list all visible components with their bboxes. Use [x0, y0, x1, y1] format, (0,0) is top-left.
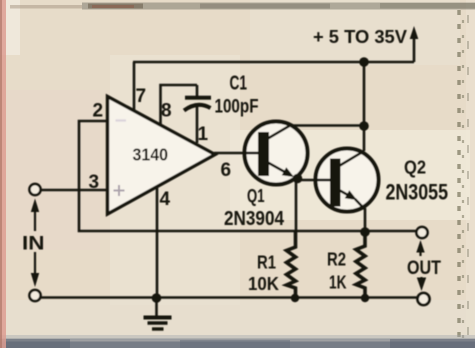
node: collector junction: [359, 121, 369, 131]
wire: bottom ground rail: [41, 296, 417, 299]
op-amp plus marking: [114, 185, 125, 196]
svg-text:IN: IN: [22, 234, 45, 255]
wire: pin 4 to ground rail: [156, 188, 159, 297]
wire: +V vertical rail: [363, 62, 366, 151]
wire: capacitor top lead: [196, 85, 199, 96]
OUT arrow up: [419, 251, 421, 256]
svg-text:+ 5 TO 35V: + 5 TO 35V: [313, 27, 407, 47]
transistor Q2 2N3055 body: [316, 149, 379, 212]
wire: Q1 collector to rail: [290, 124, 364, 127]
op-amp U1 3140: [108, 97, 216, 215]
wire: pin 8 to capacitor: [161, 85, 198, 128]
wire: Q1 emitter to Q2 base: [297, 179, 331, 182]
IN arrow up: [34, 212, 36, 231]
svg-text:1: 1: [198, 124, 209, 145]
Q2 emitter stroke with arrow: [339, 190, 351, 197]
svg-text:2N3904: 2N3904: [224, 208, 285, 230]
svg-text:Q2: Q2: [404, 158, 426, 178]
terminal OUT bottom: [418, 293, 430, 305]
svg-text:10K: 10K: [248, 274, 279, 294]
svg-text:3140: 3140: [133, 145, 169, 165]
svg-text:6: 6: [221, 160, 232, 181]
svg-text:4: 4: [160, 189, 171, 210]
wire: capacitor bottom lead to pin 1: [196, 107, 199, 143]
Q2 collector stroke: [339, 151, 364, 166]
wire: Q2 emitter down: [364, 208, 367, 232]
node: Q1 emitter junction: [293, 174, 303, 184]
svg-text:OUT: OUT: [407, 258, 441, 279]
node: output junction: [360, 227, 370, 237]
svg-text:2N3055: 2N3055: [386, 180, 449, 205]
node: R1 bottom junction: [291, 294, 299, 302]
Q1 emitter stroke with arrow: [267, 162, 288, 174]
Q1 collector stroke: [267, 126, 290, 140]
svg-text:Q1: Q1: [247, 186, 265, 206]
Q1 base wire inside body: [244, 152, 259, 155]
ground symbol: [155, 298, 158, 316]
terminal IN bottom: [29, 290, 40, 301]
svg-text:R1: R1: [257, 253, 276, 273]
op-amp minus marking: [116, 119, 127, 121]
supply arrow up: [413, 36, 416, 62]
svg-text:100pF: 100pF: [215, 97, 259, 118]
node: supply junction: [359, 57, 369, 67]
wire: output pin 6 to Q1 base: [214, 152, 259, 155]
terminal OUT top: [416, 227, 427, 238]
svg-text:R2: R2: [327, 250, 346, 270]
svg-text:7: 7: [136, 86, 147, 107]
node: ground junction: [152, 293, 162, 303]
svg-text:3: 3: [89, 172, 100, 193]
wire: IN+ to pin 3: [41, 189, 106, 192]
capacitor C1 plates: [185, 96, 211, 100]
resistor R2: [356, 232, 365, 298]
IN arrow down: [34, 252, 36, 273]
OUT arrow down: [420, 277, 422, 279]
svg-text:2: 2: [93, 101, 104, 122]
svg-text:1K: 1K: [329, 273, 347, 293]
Q1 base bar: [258, 132, 269, 176]
wire: pin 2 feedback (left, down, to output node): [79, 121, 416, 231]
resistor R1: [287, 232, 296, 298]
wire: Q1 emitter to output node: [295, 178, 298, 232]
node: R2 bottom junction: [361, 294, 369, 302]
transistor Q1 2N3904 body: [245, 122, 308, 185]
wire: pin 7 to supply: [133, 62, 136, 110]
svg-text:C1: C1: [230, 73, 248, 95]
wire: top supply rail horizontal: [133, 61, 414, 64]
Q2 base wire inside body: [315, 179, 331, 182]
svg-text:8: 8: [161, 101, 172, 122]
terminal IN top: [29, 184, 40, 195]
Q2 base bar: [330, 159, 341, 207]
